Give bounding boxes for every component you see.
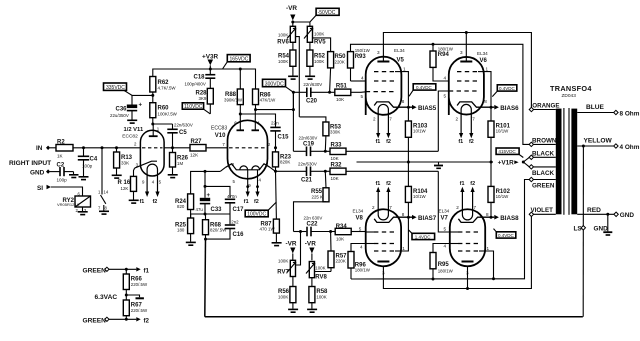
junction C15 / grid 2 / R23 — [274, 146, 277, 149]
V5 pin1 wire — [401, 72, 408, 108]
resistor R33 — [330, 148, 346, 154]
junction C4 — [82, 146, 85, 149]
V11 cathode — [135, 161, 157, 168]
svg-text:C15: C15 — [278, 134, 290, 140]
svg-text:C22: C22 — [307, 222, 319, 228]
svg-text:2: 2 — [268, 142, 271, 147]
resistor R13 — [116, 148, 118, 152]
svg-text:BLACK: BLACK — [532, 150, 554, 157]
svg-text:10K: 10K — [331, 176, 340, 181]
svg-text:3K9: 3K9 — [199, 96, 207, 101]
svg-text:22n/630V: 22n/630V — [299, 136, 318, 141]
svg-text:7: 7 — [389, 117, 392, 122]
junction R13 — [115, 146, 118, 149]
svg-text:2: 2 — [372, 205, 375, 210]
junction V11 plate / R60 / C5 — [151, 123, 154, 126]
svg-text:V10: V10 — [215, 133, 226, 139]
svg-text:22n 630V: 22n 630V — [304, 216, 323, 221]
ground R52 — [305, 76, 315, 78]
svg-text:7: 7 — [222, 142, 225, 147]
svg-text:5: 5 — [361, 94, 364, 99]
capacitor C19 — [306, 147, 308, 157]
svg-text:1M: 1M — [177, 161, 183, 166]
svg-text:C2: C2 — [57, 162, 65, 168]
svg-text:4: 4 — [361, 76, 364, 81]
svg-text:180: 180 — [177, 228, 185, 233]
svg-text:7: 7 — [472, 117, 475, 122]
svg-text:10K: 10K — [336, 236, 345, 241]
wire R34 to V8 grid — [365, 231, 367, 234]
svg-text:R94: R94 — [438, 52, 450, 58]
resistor R102 — [490, 162, 492, 186]
V10 cathodes — [226, 164, 270, 170]
capacitor C2 — [50, 171, 60, 173]
wire -VR to RV5 — [293, 21, 310, 23]
svg-text:C36: C36 — [116, 107, 128, 113]
svg-text:100K: 100K — [314, 31, 324, 36]
wire SI to relay — [51, 187, 83, 196]
plate line lower to VIOLET — [383, 216, 531, 288]
svg-text:7: 7 — [474, 205, 477, 210]
svg-text:R93: R93 — [355, 54, 367, 60]
V10 left plate — [237, 129, 245, 131]
wire plate out up to C20 — [292, 92, 294, 109]
svg-text:1: 1 — [486, 67, 489, 72]
wire R55 to C22 — [294, 202, 327, 232]
resistor R50 — [328, 52, 334, 68]
transformer primary winding — [556, 109, 562, 215]
tap BROWN — [533, 143, 555, 145]
svg-text:RED: RED — [587, 207, 601, 214]
svg-text:-VR: -VR — [305, 241, 316, 248]
ground R25 — [186, 242, 196, 244]
resistor R28 — [207, 88, 213, 104]
svg-text:GND: GND — [594, 226, 609, 233]
svg-text:22n/630V: 22n/630V — [174, 123, 193, 128]
resistor R96 — [348, 252, 354, 269]
svg-text:VR05R121A: VR05R121A — [57, 202, 80, 207]
junction R68 / C16 / feedback — [204, 238, 207, 241]
resistor R51 — [335, 89, 351, 95]
resistor R94 — [432, 43, 435, 46]
secondary BLUE to 8 Ohm — [577, 112, 614, 114]
tap ORANGE — [534, 109, 556, 111]
svg-text:3: 3 — [460, 50, 463, 55]
feedback from 4 Ohm tap node LS — [582, 146, 584, 317]
svg-text:12K: 12K — [121, 186, 129, 191]
wire feedback down-left — [204, 239, 207, 317]
svg-text:2: 2 — [373, 117, 376, 122]
svg-text:220K: 220K — [336, 258, 346, 263]
svg-text:-50VDC: -50VDC — [318, 10, 336, 16]
capacitor C4 — [83, 148, 85, 157]
svg-text:100p: 100p — [57, 178, 68, 183]
svg-text:GND: GND — [620, 212, 635, 219]
svg-text:4.7K/.5W: 4.7K/.5W — [158, 85, 177, 90]
svg-text:1: 1 — [258, 120, 261, 125]
svg-text:0.4VDC: 0.4VDC — [499, 86, 516, 91]
V10 right plate — [252, 129, 260, 131]
svg-text:4: 4 — [444, 244, 447, 249]
junction relay — [101, 146, 104, 149]
relay switch contact — [101, 148, 103, 195]
resistor R68 — [205, 214, 207, 220]
resistor R86 — [253, 89, 259, 105]
V5 grid row 1 — [374, 71, 395, 73]
junction C22 / R34 / R57 — [329, 230, 332, 233]
wire C20 node down to C19 — [292, 92, 294, 151]
potentiometer RV8 — [309, 262, 314, 278]
svg-text:8: 8 — [486, 212, 489, 217]
svg-text:EL34: EL34 — [477, 51, 488, 56]
svg-text:BIAS7: BIAS7 — [418, 215, 437, 222]
svg-text:ECC83: ECC83 — [211, 125, 227, 131]
svg-text:8: 8 — [402, 99, 405, 104]
screen supply line +V1R — [351, 44, 530, 144]
svg-text:22n: 22n — [271, 120, 279, 125]
capacitor C33 — [200, 198, 210, 201]
svg-text:GREEN: GREEN — [83, 267, 107, 274]
resistor R57 — [330, 232, 332, 252]
svg-text:335VDC: 335VDC — [106, 85, 125, 91]
svg-text:LS: LS — [574, 226, 583, 233]
potentiometer RV7 — [290, 260, 295, 276]
ground R56 — [288, 309, 298, 311]
svg-text:110VDC: 110VDC — [184, 104, 203, 110]
test point BIAS7 — [412, 215, 417, 220]
V8 grid row 2 — [374, 243, 395, 245]
svg-text:BIAS6: BIAS6 — [500, 105, 519, 112]
svg-text:GREEN: GREEN — [83, 317, 107, 324]
plate top line to ORANGE — [383, 33, 531, 108]
svg-text:BROWN: BROWN — [532, 138, 557, 145]
svg-text:SI: SI — [37, 185, 43, 192]
svg-text:BLUE: BLUE — [586, 104, 605, 111]
V6 heater leads — [459, 133, 463, 138]
svg-text:100VDC: 100VDC — [247, 212, 266, 218]
label box 165VDC — [227, 55, 250, 62]
ground R13 — [112, 175, 122, 177]
svg-text:100K/.5W: 100K/.5W — [158, 111, 178, 116]
svg-text:8: 8 — [484, 99, 487, 104]
svg-text:R33: R33 — [331, 142, 343, 148]
svg-text:47K/1W: 47K/1W — [260, 97, 276, 102]
svg-text:f1: f1 — [376, 139, 381, 145]
svg-text:220/.5W: 220/.5W — [131, 282, 148, 287]
svg-text:22n/630V: 22n/630V — [298, 161, 317, 166]
ground RED — [607, 214, 609, 231]
V6 pin1 wire — [484, 72, 491, 108]
V8 plate bar — [377, 261, 389, 263]
svg-text:f2: f2 — [153, 199, 158, 205]
label box 1.4VDC V8 — [412, 233, 435, 239]
svg-text:0.4VDC: 0.4VDC — [498, 233, 515, 238]
svg-text:YELLOW: YELLOW — [584, 138, 613, 145]
V8 grid row 1 — [374, 231, 395, 233]
resistor R27 — [190, 145, 206, 152]
svg-text:f2: f2 — [386, 139, 391, 145]
svg-text:+V3R: +V3R — [202, 54, 219, 61]
resistor R2 — [56, 145, 73, 152]
label box 0.4VDC V6 — [497, 85, 517, 91]
resistor R54 — [290, 50, 296, 66]
V7 heater leads up — [460, 187, 464, 192]
svg-text:C5: C5 — [179, 130, 187, 136]
svg-text:1: 1 — [487, 246, 490, 251]
ground R58 — [307, 309, 317, 311]
ground C2 — [73, 172, 75, 174]
V7 pin1 wire to screen line — [485, 251, 493, 279]
capacitor C17 — [225, 198, 235, 200]
svg-text:5: 5 — [359, 227, 362, 232]
wire R57 to RV8 wiper — [315, 271, 331, 273]
svg-text:ZD043: ZD043 — [562, 93, 577, 99]
svg-text:2n2: 2n2 — [231, 219, 239, 224]
svg-text:100p/400V: 100p/400V — [185, 82, 206, 87]
V5 cathode — [374, 102, 412, 107]
svg-text:165VDC: 165VDC — [230, 56, 249, 62]
transformer core — [563, 108, 565, 215]
svg-text:100K: 100K — [278, 295, 288, 300]
ground C4 — [79, 176, 89, 178]
tap VIOLET — [534, 213, 556, 215]
svg-text:8: 8 — [232, 162, 235, 167]
resistor R60 — [150, 103, 156, 118]
potentiometer RV5 — [307, 26, 312, 42]
V7 grid row 1 — [458, 231, 479, 233]
svg-text:C17: C17 — [233, 207, 245, 213]
svg-text:6: 6 — [234, 120, 237, 125]
label box 335VDC — [104, 83, 127, 90]
svg-text:4: 4 — [444, 76, 447, 81]
label box 300VDC — [263, 79, 286, 86]
resistor R26 — [172, 148, 174, 153]
svg-text:R95: R95 — [438, 262, 450, 268]
svg-text:R2: R2 — [57, 140, 65, 146]
wire cathode line to R24 — [191, 171, 221, 194]
svg-text:GREEN: GREEN — [532, 183, 555, 190]
svg-text:V8: V8 — [356, 216, 364, 222]
svg-text:f2: f2 — [144, 317, 150, 324]
resistor R66 — [125, 269, 127, 274]
V6 cathode — [457, 102, 494, 107]
svg-text:+: + — [207, 193, 211, 199]
svg-text:ORANGE: ORANGE — [532, 103, 559, 110]
svg-text:4 Ohm: 4 Ohm — [620, 144, 640, 151]
V6 grid row 3 — [449, 90, 478, 92]
junction C5/R26 on signal line — [171, 146, 174, 149]
svg-text:225 K: 225 K — [312, 194, 324, 199]
svg-text:BLACK: BLACK — [532, 170, 554, 177]
wire V11 to R27 — [164, 147, 190, 149]
svg-text:5: 5 — [444, 94, 447, 99]
svg-text:8 Ohm: 8 Ohm — [620, 110, 640, 117]
resistor R67 — [123, 300, 129, 316]
cathode bus — [357, 161, 494, 163]
V6 grid row 2 — [457, 80, 478, 82]
resistor R24 — [188, 194, 194, 210]
tap BLACK upper — [533, 156, 555, 158]
svg-text:820/.5W: 820/.5W — [210, 228, 227, 233]
label box 110VDC — [182, 103, 203, 109]
svg-text:C33: C33 — [211, 207, 223, 213]
secondary RED to GND — [577, 213, 614, 215]
svg-text:3: 3 — [266, 162, 269, 167]
wire relay coil to ground — [82, 207, 84, 211]
svg-text:f2: f2 — [469, 139, 474, 145]
svg-text:RIGHT INPUT: RIGHT INPUT — [9, 160, 51, 167]
svg-text:100K: 100K — [315, 266, 325, 271]
resistor R32 — [330, 168, 346, 174]
V5 plate bar — [377, 61, 389, 63]
label box 100VDC — [245, 210, 268, 217]
svg-text:f1: f1 — [458, 139, 463, 145]
svg-text:180/1W: 180/1W — [355, 267, 371, 272]
svg-text:33K: 33K — [121, 161, 130, 166]
svg-text:EL34: EL34 — [353, 209, 364, 214]
svg-text:150/1W: 150/1W — [355, 48, 371, 53]
wire 335VDC node — [132, 94, 153, 96]
svg-text:10/1W: 10/1W — [496, 129, 510, 134]
svg-text:820K: 820K — [280, 160, 290, 165]
svg-text:ECC82: ECC82 — [122, 133, 138, 139]
svg-text:C19: C19 — [303, 141, 315, 147]
svg-text:R34: R34 — [336, 224, 348, 230]
junction C19 / R33 / R53 — [324, 150, 327, 153]
svg-text:f1: f1 — [244, 199, 249, 205]
tap GREEN — [533, 179, 555, 181]
capacitor C36 — [127, 105, 137, 109]
svg-text:470n: 470n — [227, 194, 237, 199]
V5 grid row 2 — [374, 80, 395, 82]
svg-text:7: 7 — [389, 205, 392, 210]
svg-text:C16: C16 — [233, 232, 245, 238]
V11 plate — [149, 135, 158, 137]
resistor R87 — [275, 171, 278, 219]
svg-text:22n/630V: 22n/630V — [303, 82, 322, 87]
junction R88 / plate 6 / C15 — [239, 113, 242, 116]
svg-text:-VR: -VR — [286, 241, 297, 248]
resistor R95 — [430, 253, 436, 269]
svg-text:10K: 10K — [331, 156, 340, 161]
wires +V1R to BLACK taps — [523, 157, 529, 167]
resistor R53 — [300, 117, 326, 122]
junction C20 / R51 / R50 / C19 branch — [328, 91, 331, 94]
wire R32 to V7 grid — [438, 171, 450, 232]
node line under cathode network — [191, 213, 230, 215]
ground R54 — [288, 76, 298, 78]
svg-text:R27: R27 — [191, 139, 203, 145]
svg-text:C20: C20 — [306, 99, 318, 105]
wire plate output to C20 — [256, 109, 294, 111]
svg-text:180/1W: 180/1W — [438, 268, 454, 273]
capacitor C18 — [209, 69, 211, 74]
V7 plate bar — [462, 261, 474, 263]
ground R16 — [129, 200, 139, 202]
svg-text:RV5: RV5 — [314, 39, 326, 45]
svg-text:+V1R: +V1R — [498, 160, 515, 167]
svg-text:RV7: RV7 — [277, 270, 289, 276]
resistor R52 — [307, 50, 313, 66]
resistor R101 — [490, 107, 492, 121]
svg-text:EL34: EL34 — [394, 48, 405, 53]
V8 heater leads up — [376, 187, 380, 192]
resistor R88 — [239, 69, 241, 89]
svg-text:2: 2 — [456, 205, 459, 210]
svg-text:180/1W: 180/1W — [438, 46, 454, 51]
svg-text:330K: 330K — [330, 129, 340, 134]
svg-text:14: 14 — [104, 190, 109, 195]
svg-text:V7: V7 — [441, 216, 449, 222]
top bus +V3R rail — [153, 69, 256, 89]
resistor R56 — [290, 287, 296, 303]
resistor R23 — [275, 148, 277, 152]
V5 heater leads — [376, 133, 380, 138]
svg-text:RV6: RV6 — [277, 39, 289, 45]
wire R2 to V11 grid — [73, 147, 141, 149]
junction R86 / plate 1 output — [254, 108, 257, 111]
svg-text:220/.5W: 220/.5W — [131, 308, 148, 313]
svg-text:6.3VAC: 6.3VAC — [95, 294, 118, 301]
svg-text:f2: f2 — [254, 199, 259, 205]
V6 grid row 1 — [457, 71, 478, 73]
wire V8 grid2 to R96 — [351, 244, 366, 252]
V7 cathode top — [458, 217, 494, 222]
svg-text:10/1W: 10/1W — [413, 129, 427, 134]
svg-text:470 1W: 470 1W — [260, 227, 276, 232]
svg-text:f1: f1 — [144, 267, 150, 274]
label box -50VDC — [316, 8, 339, 15]
label box 415VDC — [496, 148, 519, 154]
svg-text:100K: 100K — [316, 295, 326, 300]
svg-text:C21: C21 — [301, 178, 313, 184]
V8 grid row 3 — [374, 250, 395, 252]
ground R26 — [168, 174, 178, 176]
test point BIAS8 — [494, 215, 499, 220]
svg-text:5: 5 — [444, 227, 447, 232]
svg-text:-VR: -VR — [286, 5, 297, 12]
resistor R104 — [407, 162, 409, 186]
svg-text:2: 2 — [456, 117, 459, 122]
ground relay — [78, 211, 88, 213]
capacitor C21 — [306, 167, 308, 177]
svg-text:390K/1W: 390K/1W — [224, 97, 243, 102]
capacitor C15 — [240, 114, 275, 127]
junction C21 / R32 / R55 — [324, 170, 327, 173]
svg-text:22u/350V: 22u/350V — [110, 113, 129, 118]
wire feedback bottom run — [205, 316, 583, 318]
transformer secondary winding — [571, 109, 577, 215]
V6 plate bar — [460, 61, 472, 63]
junction R23 / cathode 3 / C21 line — [274, 170, 277, 173]
wire V7 grid2 to R95 — [433, 244, 450, 253]
V8 pin1 wire — [401, 217, 408, 251]
center tap ground — [125, 294, 128, 297]
svg-text:100K: 100K — [278, 33, 288, 38]
test point BIAS5 — [412, 105, 417, 110]
svg-text:100p: 100p — [82, 164, 93, 169]
svg-text:10/1W: 10/1W — [413, 194, 427, 199]
svg-text:TRANSFO4: TRANSFO4 — [550, 84, 592, 93]
svg-text:C4: C4 — [90, 157, 98, 163]
secondary YELLOW to 4 Ohm — [577, 145, 614, 147]
ground cathode bus — [438, 162, 440, 165]
V7 grid row 2 — [458, 243, 479, 245]
V6 grid feed from R33 — [438, 91, 449, 151]
resistor R25 — [190, 214, 192, 218]
svg-text:47u: 47u — [196, 207, 204, 212]
svg-text:8: 8 — [402, 212, 405, 217]
